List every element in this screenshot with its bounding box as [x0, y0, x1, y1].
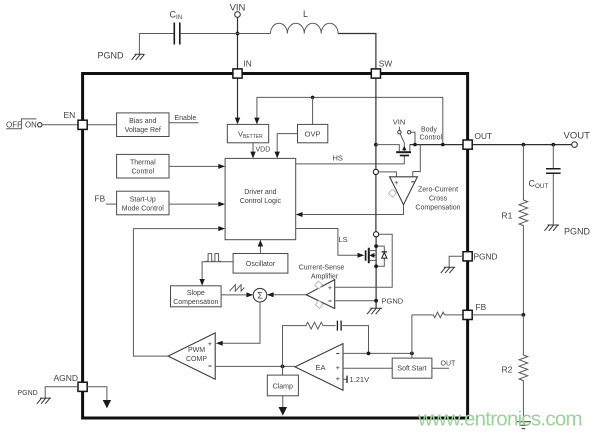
svg-text:Body: Body [421, 126, 437, 133]
svg-text:PGND: PGND [18, 390, 38, 397]
wire EN pin to Bias block [87, 124, 116, 126]
pin IN [233, 69, 242, 78]
svg-text:OVP: OVP [305, 129, 321, 138]
svg-text:Zero-Current: Zero-Current [418, 186, 458, 193]
svg-text:OFF: OFF [6, 120, 22, 129]
ground PGND pin stub [441, 252, 498, 274]
comparator Zero-Current Cross Compensation [373, 145, 420, 205]
capacitor compensation C [337, 321, 368, 354]
svg-text:Compensation: Compensation [173, 299, 218, 306]
block Thermal Control [117, 154, 169, 178]
block OVP [298, 124, 328, 142]
svg-text:Oscillator: Oscillator [246, 261, 276, 268]
wire EA middle plus to Soft Start [343, 367, 392, 369]
wire FB stub to Start-Up block [106, 203, 117, 205]
pin SW [371, 69, 380, 78]
svg-text:Slope: Slope [187, 290, 205, 297]
wire CIN to VIN node to inductor [181, 33, 271, 35]
pin EN [78, 120, 87, 129]
amplifier EA [295, 344, 343, 391]
svg-text:Cross: Cross [429, 195, 448, 202]
svg-text:Thermal: Thermal [130, 160, 156, 167]
wire VIN down to input rail [237, 17, 239, 69]
wire LS line Driver to NFET gate [296, 229, 365, 258]
svg-text:www.entronics.com: www.entronics.com [417, 407, 582, 430]
svg-text:IN: IN [176, 14, 183, 21]
svg-text:OUT: OUT [475, 131, 493, 141]
ground AGND internal arrow [87, 387, 111, 409]
IC boundary box [83, 74, 468, 419]
svg-text:Current-Sense: Current-Sense [299, 265, 345, 272]
svg-text:R1: R1 [502, 211, 513, 221]
wire SW rail vertical [375, 78, 377, 308]
node EN input terminal [38, 123, 42, 127]
node junction OVP on sense line [311, 96, 315, 100]
block Soft Start [392, 358, 432, 378]
wire FB pin to divider [472, 314, 523, 316]
svg-text:PWM: PWM [188, 347, 205, 354]
svg-text:EA: EA [315, 363, 325, 372]
node LS source junction [374, 264, 378, 268]
resistor R1 [502, 145, 528, 315]
svg-text:VOUT: VOUT [564, 131, 591, 142]
wire IN pin down to VBETTER [235, 78, 240, 124]
svg-text:PGND: PGND [474, 252, 498, 262]
svg-text:PGND: PGND [98, 51, 125, 61]
svg-text:COMP: COMP [186, 356, 207, 363]
node junction COUT [551, 143, 555, 147]
svg-text:Mode Control: Mode Control [122, 205, 164, 212]
wire Start-Up to Driver [169, 202, 225, 207]
block Clamp [267, 366, 298, 395]
wire HS line Driver to PFET gate [296, 154, 405, 164]
ground AGND external PGND [18, 387, 79, 404]
svg-text:+: + [328, 283, 333, 292]
svg-text:VDD: VDD [256, 147, 271, 154]
svg-text:Clamp: Clamp [273, 383, 293, 390]
node OFF/ON step symbol [6, 119, 37, 129]
svg-text:AGND: AGND [54, 373, 79, 383]
capacitor COUT [529, 145, 561, 225]
capacitor CIN [170, 10, 183, 45]
block Oscillator [233, 254, 288, 274]
node junction EA output [281, 365, 285, 369]
ground PGND top-left [98, 51, 145, 61]
svg-text:Σ: Σ [257, 291, 263, 301]
svg-text:+: + [336, 363, 341, 372]
wire EA output to PWM COMP minus [215, 365, 295, 367]
comparator PWM COMP [168, 333, 215, 379]
wire input rail left to CIN [139, 34, 174, 55]
wire Current-Sense Amplifier output to summer [267, 292, 307, 297]
svg-text:Control: Control [132, 169, 155, 176]
svg-text:1.21V: 1.21V [350, 375, 370, 384]
svg-text:Soft Start: Soft Start [397, 366, 426, 373]
block Slope Compensation [171, 286, 222, 307]
node SW-OUT branch junction [374, 143, 378, 147]
wire Oscillator to Slope Compensation [199, 262, 233, 286]
node junction compensation to minus [367, 352, 371, 356]
svg-text:+: + [394, 178, 399, 187]
transistor HS PFET [376, 143, 411, 156]
wire Zero-Current comp output to Driver [296, 205, 404, 217]
wire OUT line PFET to OUT pin [410, 144, 463, 146]
wire EA minus line [343, 352, 412, 354]
block Start-Up Mode Control [117, 191, 169, 215]
wire summer to PWM COMP plus input [216, 302, 260, 346]
wire FB line with internal resistor [412, 312, 463, 318]
resistor R2 [502, 315, 528, 422]
block Bias and Voltage Ref [117, 113, 169, 137]
wire OVP to Driver [275, 134, 298, 159]
amplifier Current-Sense [299, 265, 345, 309]
svg-text:PGND: PGND [382, 296, 404, 305]
wire VDD VBETTER to Driver [250, 143, 270, 159]
wire PWM COMP output up to Driver [133, 226, 225, 356]
svg-text:Start-Up: Start-Up [130, 196, 156, 203]
block Driver and Control Logic [225, 158, 296, 239]
svg-text:+: + [208, 339, 213, 348]
svg-text:OUT: OUT [535, 183, 548, 190]
svg-text:Voltage Ref: Voltage Ref [125, 127, 161, 134]
svg-text:Driver and: Driver and [244, 189, 276, 196]
svg-text:EN: EN [64, 110, 76, 120]
svg-text:Control: Control [420, 134, 443, 141]
pin OUT [463, 140, 472, 149]
wire OVP riser [312, 97, 314, 124]
svg-text:SW: SW [379, 59, 393, 69]
wire OUT pin to VOUT [472, 144, 572, 146]
svg-text:Enable: Enable [175, 115, 197, 122]
diode LS body diode [376, 246, 387, 266]
svg-text:OUT: OUT [441, 360, 457, 367]
reference 1.21V [343, 375, 369, 384]
node PGND junction [374, 299, 378, 303]
inductor L [271, 9, 339, 34]
wire CS minus to PGND node [335, 300, 376, 302]
pin PGND [463, 252, 472, 261]
node junction FB riser [410, 352, 414, 356]
node VIN terminal [230, 3, 246, 18]
ground COUT PGND [545, 225, 591, 237]
svg-text:PGND: PGND [564, 227, 591, 237]
wire EN terminal to EN pin [42, 124, 78, 126]
symbol clock pulses [206, 254, 221, 262]
svg-text:L: L [303, 9, 308, 19]
node VIN junction [236, 32, 240, 36]
wire Enable stub [169, 122, 199, 124]
ground R2 earth [516, 422, 531, 429]
svg-text:Compensation: Compensation [415, 204, 460, 211]
wire Slope Compensation to summer [221, 292, 253, 297]
wire OUT sense line to VBETTER [254, 97, 443, 144]
wire FB riser to FB line and Soft Start [411, 315, 413, 358]
svg-text:LS: LS [339, 235, 348, 244]
node junction divider [522, 313, 526, 317]
symbol sawtooth ramp [230, 285, 245, 292]
node zero-current labels [415, 186, 460, 211]
pin FB [463, 310, 472, 319]
svg-text:Control Logic: Control Logic [240, 198, 282, 205]
wire inductor to SW [338, 34, 376, 69]
ground PGND internal hatch [367, 296, 404, 314]
wire Oscillator to Driver [258, 240, 263, 254]
block VBETTER [227, 124, 268, 142]
summer sigma [253, 288, 267, 302]
svg-text:ON: ON [25, 120, 37, 129]
node junction switch on OUT line [413, 143, 417, 147]
svg-text:R2: R2 [502, 365, 513, 375]
transistor LS NFET [366, 232, 379, 264]
svg-text:FB: FB [95, 194, 106, 204]
svg-text:+: + [336, 374, 341, 383]
svg-text:BETTER: BETTER [243, 134, 263, 140]
svg-text:IN: IN [244, 59, 252, 69]
ground Clamp arrow [279, 396, 288, 416]
node junction sense riser on OUT line [441, 143, 445, 147]
svg-text:FB: FB [476, 302, 487, 312]
node junction R1 [522, 143, 526, 147]
wire CS plus sense loop to SW bubble [335, 234, 393, 287]
svg-text:VIN: VIN [393, 117, 406, 126]
wire Soft Start OUT stub [432, 360, 456, 368]
svg-text:Bias and: Bias and [129, 118, 156, 125]
switch body select [393, 117, 415, 144]
resistor compensation R [283, 322, 336, 366]
node VOUT terminal [564, 131, 591, 148]
pin AGND [78, 382, 87, 391]
node body control label [420, 126, 443, 141]
wire Thermal Control to Driver [169, 164, 225, 169]
svg-text:HS: HS [333, 154, 343, 163]
node LS drain junction [374, 244, 378, 248]
